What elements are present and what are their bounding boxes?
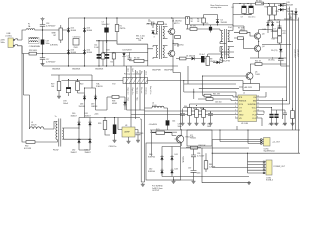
svg-text:Q2 2SD764: Q2 2SD764 xyxy=(174,45,183,47)
resistor R16 xyxy=(272,36,282,44)
wire control gnd xyxy=(174,177,194,180)
svg-text:R3 1W: R3 1W xyxy=(134,58,140,60)
capacitor CY pair xyxy=(50,25,63,47)
capacitor C54 xyxy=(283,110,288,126)
capacitor C19 (X2) xyxy=(41,30,50,54)
svg-text:Vcc: Vcc xyxy=(135,71,137,74)
wire IC right links xyxy=(260,92,290,126)
wire T2 drive links xyxy=(231,25,235,58)
svg-text:R6 2R2: R6 2R2 xyxy=(190,26,196,28)
output rectifier box xyxy=(146,143,181,192)
svg-text:1N4148: 1N4148 xyxy=(221,22,227,24)
transistor Q4 xyxy=(253,42,264,56)
wire mid out rail xyxy=(262,43,291,45)
fuse F1 xyxy=(26,24,36,31)
svg-text:C43 10n: C43 10n xyxy=(215,102,222,104)
svg-text:AN-T628: AN-T628 xyxy=(245,86,252,89)
svg-text:GND/PWR: GND/PWR xyxy=(164,70,173,72)
svg-text:D4 1N4937: D4 1N4937 xyxy=(123,50,132,52)
diode D40 xyxy=(148,147,164,177)
svg-text:Ska 9-5 In: Ska 9-5 In xyxy=(149,86,151,94)
capacitor C7B xyxy=(63,80,71,105)
inductor L4 xyxy=(145,103,168,119)
wire B+ bus thick xyxy=(96,41,148,45)
SEC_IC xyxy=(131,92,295,128)
resistor R5a xyxy=(175,36,181,39)
resistor R5c xyxy=(206,54,216,66)
capacitor C8b xyxy=(268,57,284,64)
diode D32 xyxy=(71,138,81,154)
svg-text:L2: L2 xyxy=(243,93,245,95)
svg-text:TL1451: TL1451 xyxy=(190,138,196,140)
capacitor C14 xyxy=(94,41,101,66)
resistor R42 xyxy=(198,98,235,104)
wire secondary mid rails xyxy=(233,15,280,36)
svg-text:8: 8 xyxy=(257,117,258,119)
svg-text:7: 7 xyxy=(235,117,236,119)
junction dots aux xyxy=(68,79,115,140)
capacitor C4 xyxy=(127,52,132,60)
resistor R1 xyxy=(115,18,126,41)
wire neutral to bridge xyxy=(37,53,85,55)
opto U2 xyxy=(152,129,176,135)
transistor Q6 xyxy=(175,129,195,146)
resistor R39 xyxy=(98,118,107,134)
svg-text:+5Vs/BUS: +5Vs/BUS xyxy=(149,124,158,126)
resistor R5a2 xyxy=(158,22,164,25)
SEC_INVERTER xyxy=(146,5,234,66)
wire opto feed xyxy=(151,130,153,156)
wire aux mid line xyxy=(51,75,92,88)
connector CON1 (AC line input) xyxy=(1,33,23,48)
svg-text:anti-ring drive: anti-ring drive xyxy=(211,6,222,9)
capacitor C53 xyxy=(274,110,279,126)
transformer T2 primary lower xyxy=(220,47,223,58)
svg-text:C10 4.7u: C10 4.7u xyxy=(248,17,255,19)
svg-text:C52: C52 xyxy=(269,124,272,126)
wire secondary top rail xyxy=(233,4,284,27)
svg-text:100n/1KV: 100n/1KV xyxy=(102,24,111,26)
transformer T1 secondary upper xyxy=(163,24,168,39)
resistor R38 xyxy=(107,96,125,111)
SEC_CONTROL xyxy=(140,103,300,193)
wire control rail xyxy=(150,126,300,132)
diode D16 xyxy=(67,49,76,55)
wire bridge leg2 xyxy=(84,18,86,66)
resistor R10 xyxy=(265,4,272,21)
diode D39 xyxy=(123,101,126,107)
resistor R46 xyxy=(200,108,206,126)
diode D18 xyxy=(79,88,87,110)
wire cap feeds xyxy=(272,98,286,119)
svg-text:F3(7)V: F3(7)V xyxy=(53,150,59,152)
capacitor C3 xyxy=(199,54,206,63)
wire barrier verticals xyxy=(127,66,145,182)
svg-text:3: 3 xyxy=(154,37,155,39)
svg-text:14: 14 xyxy=(257,96,259,98)
svg-text:Gnd bus: Gnd bus xyxy=(144,88,146,95)
node rotated label TL431 xyxy=(182,156,185,163)
capacitor C37 xyxy=(188,162,201,180)
svg-text:R18 560K: R18 560K xyxy=(29,50,38,52)
diode D9 xyxy=(278,2,293,7)
junction dots ic xyxy=(196,100,287,113)
svg-text:TR1: TR1 xyxy=(138,40,141,42)
svg-text:C54: C54 xyxy=(283,124,286,126)
svg-text:D9 (C9): D9 (C9) xyxy=(271,50,278,52)
node barrier pin labels xyxy=(126,88,146,101)
svg-text:1W: 1W xyxy=(240,29,243,31)
svg-text:C3 4n7: C3 4n7 xyxy=(199,54,205,56)
diode D43 xyxy=(170,147,177,177)
wire long mid rail xyxy=(212,140,300,168)
junction dots topright xyxy=(239,3,284,59)
resistor R7 xyxy=(234,28,253,37)
svg-text:(CHOKE): (CHOKE) xyxy=(50,45,58,47)
inductor L2 block xyxy=(239,84,287,95)
svg-text:Gnd: Gnd xyxy=(144,71,146,74)
wire right bus verticals xyxy=(287,4,299,154)
svg-text:1N4148: 1N4148 xyxy=(287,5,293,7)
wire aux dc rail xyxy=(96,117,140,119)
svg-text:R12: R12 xyxy=(272,39,275,41)
node barrier labels top xyxy=(126,68,151,94)
wire DC top bus xyxy=(69,17,204,19)
wire CON3 feeds xyxy=(212,130,260,144)
svg-text:R2: R2 xyxy=(98,57,100,59)
transformer T2 secondary xyxy=(228,27,232,42)
svg-text:+u2_OUT: +u2_OUT xyxy=(272,141,281,143)
ground output mid xyxy=(173,179,175,180)
resistor R3 xyxy=(130,58,148,63)
capacitor C15 xyxy=(104,41,110,66)
svg-text:D41: D41 xyxy=(175,154,178,156)
wire fuse to bridge xyxy=(36,29,69,31)
svg-text:Opto 1 in: Opto 1 in xyxy=(126,88,129,95)
svg-text:LM78P: LM78P xyxy=(124,132,130,134)
svg-text:3: 3 xyxy=(235,103,236,105)
svg-text:PG4: PG4 xyxy=(228,27,232,29)
svg-text:SURF40: SURF40 xyxy=(148,156,155,158)
svg-text:SCHA_5: SCHA_5 xyxy=(266,179,273,182)
connector CON2 xyxy=(263,160,286,182)
transformer T2 core xyxy=(224,29,226,59)
svg-text:Vcc aux: Vcc aux xyxy=(135,88,137,94)
resistor R12 xyxy=(234,37,253,49)
diode D15 xyxy=(67,27,76,33)
svg-text:100n: 100n xyxy=(178,126,182,128)
diode D31 xyxy=(85,113,92,127)
svg-text:C39: C39 xyxy=(140,133,143,135)
svg-text:6: 6 xyxy=(235,113,236,115)
svg-text:C38 470u: C38 470u xyxy=(109,146,117,148)
svg-text:C37: C37 xyxy=(188,168,191,170)
svg-text:C53: C53 xyxy=(274,124,277,126)
svg-text:Opto 2 in: Opto 2 in xyxy=(131,88,134,95)
transformer T1 secondary lower xyxy=(163,46,168,58)
resistor R9 xyxy=(256,1,264,5)
resistor R14 xyxy=(250,61,287,66)
junction dots bridge xyxy=(68,17,148,66)
diode D5 xyxy=(216,20,227,24)
transformer T3 core xyxy=(59,119,61,147)
diode D2 xyxy=(146,21,155,34)
svg-text:4: 4 xyxy=(235,106,236,108)
svg-text:Q4: Q4 xyxy=(262,46,264,48)
resistor R48 xyxy=(204,153,216,172)
transformer T2 secondary lower xyxy=(220,47,231,63)
svg-text:100uF: 100uF xyxy=(63,103,69,105)
transformer T3 primary xyxy=(54,116,57,142)
capacitor C5 xyxy=(206,23,212,32)
svg-text:SYS: SYS xyxy=(239,104,244,106)
SEC_INPUT xyxy=(1,17,85,65)
resistor R20 xyxy=(76,80,84,94)
wire left drops xyxy=(140,119,142,182)
wire aux links xyxy=(69,88,108,118)
svg-text:COM-M20MH: COM-M20MH xyxy=(29,46,41,48)
svg-text:100n: 100n xyxy=(197,172,201,174)
svg-text:Drv out: Drv out xyxy=(140,88,143,94)
svg-text:POWER_OUT: POWER_OUT xyxy=(274,166,286,168)
svg-text:FB/SUS: FB/SUS xyxy=(239,101,247,103)
node rail labels rotated xyxy=(293,49,298,59)
wire Q4 emitter rail xyxy=(250,30,290,67)
svg-text:OUTPUT: OUTPUT xyxy=(152,190,160,192)
diode D30 xyxy=(71,113,81,127)
diode D33 xyxy=(85,138,92,154)
capacitor C8 xyxy=(274,20,282,33)
svg-text:C9: C9 xyxy=(241,17,243,19)
resistor R6 xyxy=(186,26,220,31)
capacitor C17 xyxy=(40,54,56,66)
svg-text:C16 470u: C16 470u xyxy=(73,37,81,39)
svg-text:BL406: BL406 xyxy=(87,52,92,54)
capacitor C52 xyxy=(269,108,274,127)
svg-text:11: 11 xyxy=(257,106,259,108)
wire U3 out xyxy=(105,118,118,136)
IC2 box xyxy=(187,130,212,146)
transistor Q1 xyxy=(168,18,182,37)
diode D10 xyxy=(278,8,293,13)
diode D4b xyxy=(192,57,202,60)
svg-text:TL431A: TL431A xyxy=(182,156,185,163)
wire AC neutral xyxy=(22,46,29,54)
resistor R4 xyxy=(111,52,116,66)
svg-text:R4: R4 xyxy=(111,62,113,64)
svg-text:MOT-1: MOT-1 xyxy=(174,23,180,25)
svg-text:BM: BM xyxy=(253,101,256,103)
transformer T1 primary lower winding xyxy=(153,46,158,60)
svg-text:D4 1N4148: D4 1N4148 xyxy=(186,56,195,58)
svg-text:4.7nF/400V: 4.7nF/400V xyxy=(46,61,56,63)
svg-text:1N4007: 1N4007 xyxy=(85,115,91,117)
resistor R47 xyxy=(291,108,295,125)
svg-text:BL406: BL406 xyxy=(71,52,76,54)
svg-text:R44: R44 xyxy=(184,106,187,108)
diode D12 xyxy=(271,44,282,57)
wire Q5 links xyxy=(250,64,252,84)
SEC_CONN xyxy=(202,129,300,184)
svg-text:Q3: Q3 xyxy=(262,34,264,36)
wire primary snubber row xyxy=(103,44,148,66)
inductor L3 xyxy=(30,122,55,129)
svg-text:4.7u/16V: 4.7u/16V xyxy=(197,155,205,157)
svg-text:1N4007: 1N4007 xyxy=(85,152,91,154)
SEC_MID xyxy=(51,44,245,182)
resistor R36 xyxy=(186,145,206,149)
wire gnd bus xyxy=(43,65,179,67)
connector CON3 xyxy=(261,138,281,153)
svg-text:1: 1 xyxy=(235,96,236,98)
svg-text:SQLBP(X)1-D: SQLBP(X)1-D xyxy=(264,151,276,153)
capacitor C9 xyxy=(241,4,247,19)
svg-text:TRAN-2P3S: TRAN-2P3S xyxy=(220,60,231,63)
common-mode choke L1 xyxy=(29,38,41,49)
IC U1 xyxy=(235,95,260,125)
svg-text:R20: R20 xyxy=(80,84,83,86)
svg-text:12: 12 xyxy=(257,103,259,105)
svg-text:4.7nF/400V: 4.7nF/400V xyxy=(46,25,56,27)
node rail dots xyxy=(212,129,249,153)
transformer T1 core xyxy=(159,26,161,60)
svg-text:R41 47K: R41 47K xyxy=(213,94,221,96)
svg-text:ECO-RN: ECO-RN xyxy=(24,148,32,150)
svg-text:+12V_OUT: +12V_OUT xyxy=(293,49,295,59)
resistor R18 xyxy=(29,50,38,55)
svg-text:Drv: Drv xyxy=(140,71,142,74)
svg-text:(CON1): (CON1) xyxy=(6,35,13,37)
wire AC live to fuse xyxy=(22,30,26,40)
capacitor C39 xyxy=(136,130,144,143)
svg-text:PGB 1B: PGB 1B xyxy=(96,86,103,88)
capacitor C10 xyxy=(248,4,255,19)
resistor R45 xyxy=(193,108,199,126)
junction dots input xyxy=(42,29,43,54)
wire half-bridge node xyxy=(173,37,178,51)
svg-text:R46: R46 xyxy=(200,108,203,110)
svg-text:C1: C1 xyxy=(148,20,150,22)
resistor R11 xyxy=(273,4,279,21)
svg-text:R9 100: R9 100 xyxy=(256,1,262,3)
diode D8 xyxy=(291,8,298,19)
junction dots inverter xyxy=(171,17,218,44)
transformer T3 secondary xyxy=(53,128,66,152)
transformer T1 primary winding xyxy=(153,22,158,39)
capacitor C38 xyxy=(109,118,117,149)
svg-text:VCC: VCC xyxy=(252,108,257,110)
wire mid horizontals xyxy=(127,110,145,130)
diode D14 xyxy=(83,49,92,55)
capacitor C1 xyxy=(147,20,155,26)
resistor R5b xyxy=(197,18,205,23)
svg-text:GND/PWR: GND/PWR xyxy=(152,70,161,72)
svg-text:100n: 100n xyxy=(207,126,211,128)
transistor Q2 xyxy=(168,40,184,60)
SEC_TOPRIGHT xyxy=(232,1,299,154)
diode D42 xyxy=(148,169,164,175)
svg-text:GND/BUS: GND/BUS xyxy=(52,69,61,71)
barrier hatched box xyxy=(96,73,148,88)
diode D7 xyxy=(271,21,277,33)
svg-text:1N4007: 1N4007 xyxy=(71,152,77,154)
wire CON2 feeds xyxy=(212,153,263,173)
capacitor C7 xyxy=(102,18,111,43)
svg-text:+24m: +24m xyxy=(94,114,99,116)
svg-text:10: 10 xyxy=(257,110,259,112)
svg-text:C5: C5 xyxy=(206,23,208,25)
svg-text:C44: C44 xyxy=(172,121,175,123)
svg-text:BL406: BL406 xyxy=(87,30,92,32)
svg-text:(CL4): (CL4) xyxy=(152,105,157,107)
regulator U3 xyxy=(118,125,138,143)
svg-text:R45: R45 xyxy=(193,108,196,110)
capacitor C16 xyxy=(73,37,81,50)
transistor Q3 xyxy=(253,30,264,42)
svg-text:5: 5 xyxy=(235,110,236,112)
svg-text:9: 9 xyxy=(257,113,258,115)
svg-text:U2: U2 xyxy=(232,7,234,9)
wire bridge leg1 xyxy=(68,18,70,66)
wire control bundle verticals xyxy=(173,60,243,130)
diode D4c xyxy=(213,59,223,64)
wire feedback line long xyxy=(62,80,184,82)
svg-text:PG4: PG4 xyxy=(164,24,168,26)
svg-text:D8: D8 xyxy=(291,11,293,13)
svg-text:2: 2 xyxy=(235,99,236,101)
resistor R2 xyxy=(98,41,105,66)
svg-text:1N4148: 1N4148 xyxy=(79,106,85,108)
svg-text:R14 1K: R14 1K xyxy=(255,61,262,63)
svg-text:Tx: Tx xyxy=(55,116,57,118)
svg-text:IT1#: IT1# xyxy=(112,84,116,86)
svg-text:100n: 100n xyxy=(46,43,50,45)
svg-text:GND: GND xyxy=(239,115,244,117)
resistor R8 xyxy=(176,56,195,60)
svg-text:+5V_OUT: +5V_OUT xyxy=(296,49,298,58)
svg-text:GND/BUS: GND/BUS xyxy=(95,69,104,71)
resistor R5 vertical xyxy=(186,17,194,30)
svg-text:13: 13 xyxy=(257,99,259,101)
node bundle dots xyxy=(183,76,203,93)
capacitor C36 xyxy=(191,149,205,162)
wire control bundle horizontals xyxy=(184,76,245,96)
capacitor C40 xyxy=(149,118,170,130)
svg-text:Op2: Op2 xyxy=(131,68,133,71)
svg-text:1.2K/BT: 1.2K/BT xyxy=(209,166,216,168)
svg-text:Op1: Op1 xyxy=(126,68,128,71)
svg-text:R10: R10 xyxy=(265,7,268,9)
wire rect box internals xyxy=(162,147,249,177)
svg-text:SURF40: SURF40 xyxy=(148,171,155,173)
diode D4 xyxy=(122,50,131,67)
capacitor C34 xyxy=(207,112,213,128)
svg-text:D43: D43 xyxy=(175,169,178,171)
resistor R15 xyxy=(278,25,287,36)
svg-text:U1 FL80: U1 FL80 xyxy=(241,123,248,125)
wire aux AC feeds xyxy=(22,46,30,140)
resistor R41 xyxy=(204,94,235,98)
resistor R19 xyxy=(51,75,61,98)
svg-text:C4: C4 xyxy=(127,56,129,58)
wire IC left feeds xyxy=(131,99,235,115)
svg-text:R39: R39 xyxy=(98,123,101,125)
wire T3 to bridge xyxy=(66,118,96,151)
ground C37 xyxy=(192,180,196,183)
diode D41 xyxy=(170,154,177,161)
diode D13 xyxy=(83,27,92,33)
svg-text:1N4007: 1N4007 xyxy=(71,115,77,117)
